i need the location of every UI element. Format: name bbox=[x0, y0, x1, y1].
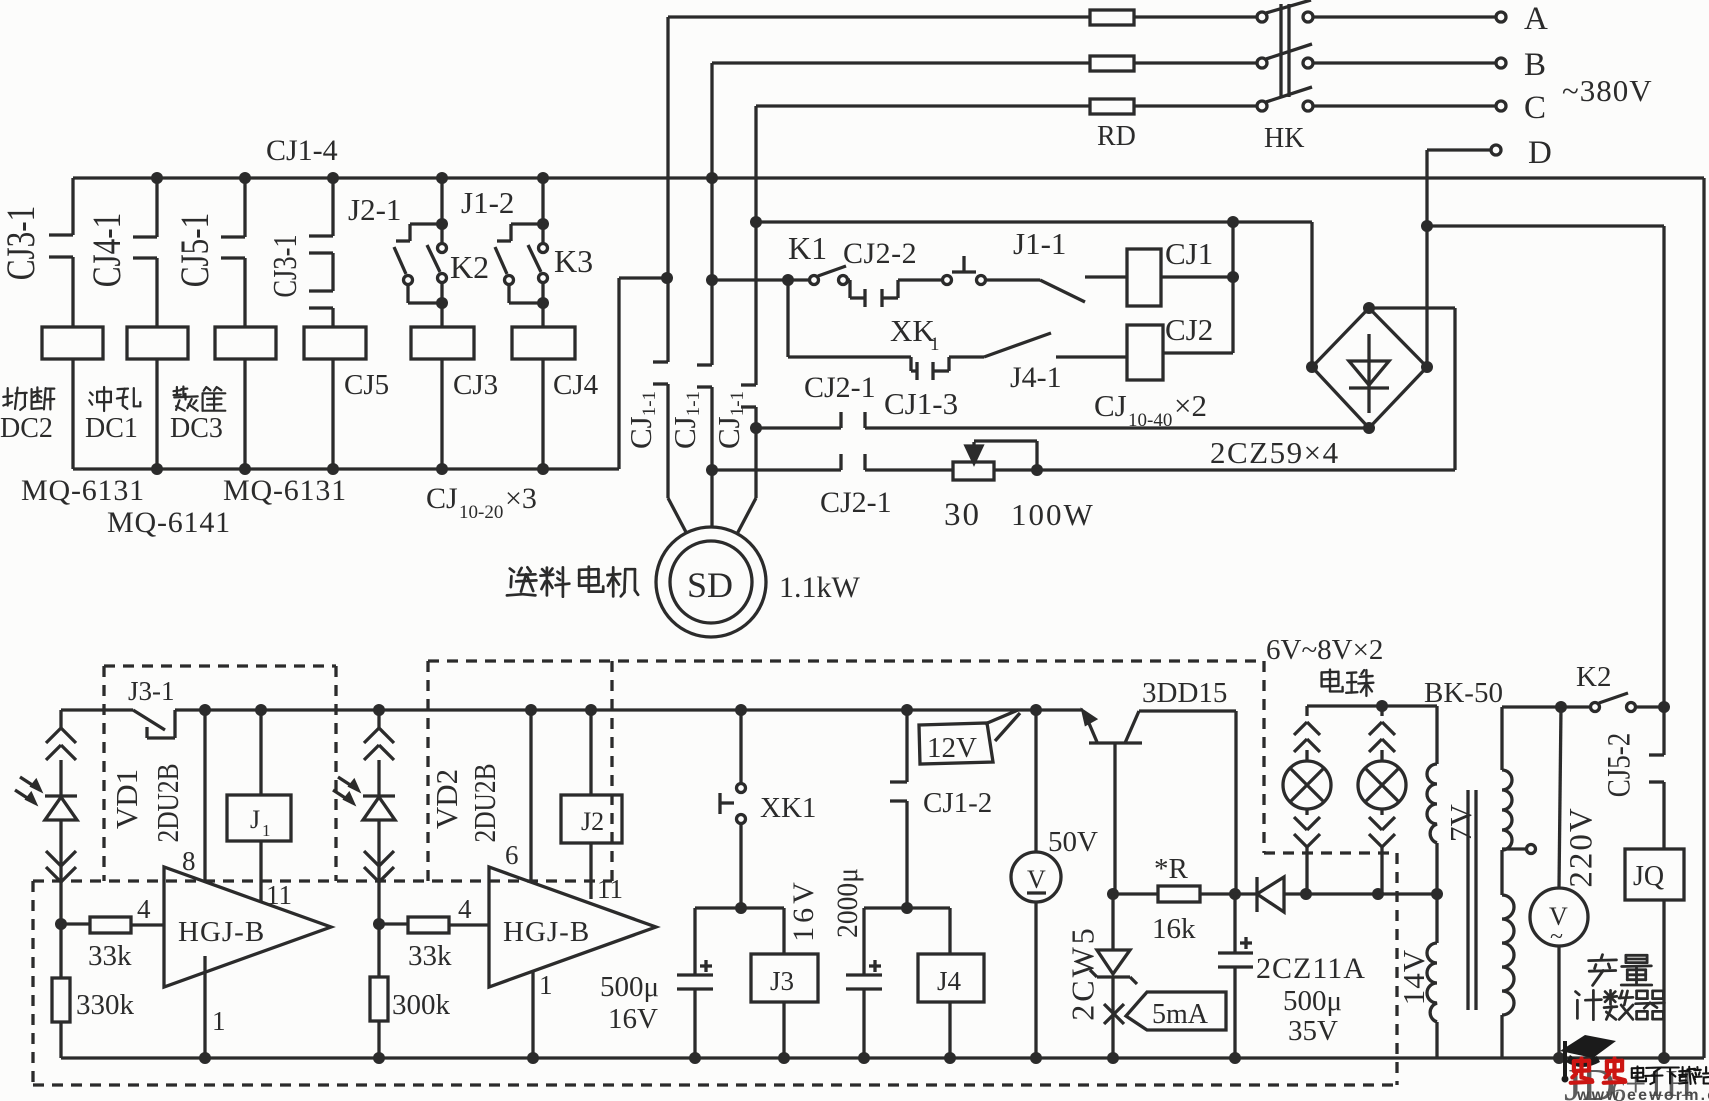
svg-text:1: 1 bbox=[930, 334, 940, 355]
photodiode VD1 bbox=[59, 710, 62, 728]
supply rail wire bbox=[61, 708, 133, 711]
node col6 split bbox=[537, 218, 549, 230]
node bridge left bbox=[1306, 361, 1318, 373]
wire coil CJ4 down bbox=[541, 359, 544, 469]
wire CJ2-1a to bridge bbox=[865, 426, 1369, 429]
dashed line lower bbox=[33, 879, 612, 882]
wire pin6 bbox=[529, 710, 532, 881]
wire col6 to coil bbox=[541, 303, 544, 327]
node CJ1 right bbox=[1227, 271, 1239, 283]
wire K3 left bottom bbox=[507, 285, 510, 303]
node lamp1 bottom bbox=[1300, 888, 1312, 900]
node rail J1 bbox=[255, 704, 267, 716]
node 220V branch bbox=[1555, 701, 1567, 713]
wire XK1 row bbox=[788, 355, 911, 358]
node bridge right bbox=[1421, 361, 1433, 373]
svg-text:CJ3: CJ3 bbox=[453, 369, 498, 401]
svg-text:6: 6 bbox=[505, 840, 519, 870]
node col5 split bbox=[436, 218, 448, 230]
capacitor 500u bbox=[677, 973, 713, 976]
light arrows VD2 bbox=[338, 777, 358, 790]
svg-text:300k: 300k bbox=[392, 989, 451, 1021]
wire coil CJ3 down bbox=[440, 359, 443, 469]
node base junction bbox=[1107, 888, 1119, 900]
ladder bottom bus wire bbox=[73, 467, 619, 470]
wire K1 row bbox=[712, 278, 788, 281]
node bridge bottom bbox=[1363, 422, 1375, 434]
node CJ1-CJ2 right bus bbox=[1227, 216, 1239, 228]
capacitor 2CZ11A 500u 35V bbox=[1218, 951, 1253, 954]
voltmeter 50V bbox=[1034, 710, 1037, 852]
flag 12V bbox=[919, 723, 993, 764]
svg-text:CJ5-2: CJ5-2 bbox=[1600, 733, 1637, 798]
node bottom col6 bbox=[537, 463, 549, 475]
relay coil CJ4 bbox=[512, 327, 575, 359]
wire primary top bbox=[1502, 705, 1561, 708]
transformer T1 primary bbox=[1500, 707, 1503, 770]
svg-text:11: 11 bbox=[597, 874, 623, 904]
relay coil J4 bbox=[948, 908, 951, 954]
svg-text:XK: XK bbox=[890, 313, 935, 348]
svg-text:16V: 16V bbox=[787, 878, 820, 942]
label DC2 switch-off bbox=[3, 388, 26, 410]
wire lamp bottom link bbox=[1306, 892, 1437, 895]
fuse RD-B bbox=[1090, 56, 1134, 71]
switch HK pole C bbox=[1257, 101, 1267, 111]
svg-text:50V: 50V bbox=[1048, 826, 1098, 858]
relay coil DC3 bbox=[215, 327, 276, 359]
relay coil DC2 bbox=[42, 327, 103, 359]
svg-text:10-20: 10-20 bbox=[459, 502, 503, 523]
svg-text:C: C bbox=[1524, 90, 1546, 126]
svg-text:RD: RD bbox=[1097, 121, 1136, 152]
wire coil DC3 down bbox=[243, 359, 246, 469]
wire rheostat row bbox=[712, 468, 841, 471]
voltmeter 220V bbox=[1559, 707, 1561, 888]
zener 2CW5 bbox=[1111, 894, 1114, 950]
contact CJ2-1 lower bbox=[839, 454, 842, 470]
svg-text:2DU2B: 2DU2B bbox=[469, 763, 503, 842]
svg-text:1.1kW: 1.1kW bbox=[779, 571, 861, 604]
svg-text:CJ: CJ bbox=[1094, 388, 1127, 423]
op-amp U2 HGJ-B bbox=[489, 867, 656, 987]
svg-text:V: V bbox=[1027, 865, 1046, 894]
wire col6 top bbox=[541, 178, 544, 224]
svg-text:2DU2B: 2DU2B bbox=[152, 763, 186, 842]
svg-text:8: 8 bbox=[182, 846, 196, 876]
node lamp2 top bbox=[1376, 700, 1388, 712]
wire button to blade bbox=[986, 278, 1040, 281]
wire XK1 row drop bbox=[786, 280, 789, 357]
contact CJ3-1 lower bbox=[331, 253, 334, 291]
svg-text:16k: 16k bbox=[1152, 913, 1196, 945]
svg-text:D: D bbox=[1528, 135, 1552, 171]
node rail1 J3 bbox=[778, 1052, 790, 1064]
svg-text:VD2: VD2 bbox=[429, 769, 464, 829]
contact CJ1-2 bbox=[905, 710, 908, 782]
watermark site name bbox=[1632, 1066, 1646, 1081]
dashed big box left bbox=[31, 881, 34, 1085]
node rail XK1 bbox=[735, 704, 747, 716]
svg-text:DC2: DC2 bbox=[0, 413, 53, 444]
label DC1 punching bbox=[89, 387, 111, 411]
node rheostat out bbox=[1031, 464, 1043, 476]
node rail1 50V bbox=[1030, 1052, 1042, 1064]
photodiode VD2 bbox=[377, 710, 380, 728]
rheostat wiper arrow bbox=[972, 442, 975, 448]
wire blade to CJ1 bbox=[1085, 275, 1127, 278]
node bus col3 bbox=[239, 172, 251, 184]
dashed box VD1 bbox=[104, 664, 336, 667]
contact col4 upper bbox=[331, 178, 334, 236]
svg-text:HGJ-B: HGJ-B bbox=[178, 916, 265, 948]
svg-text:VD1: VD1 bbox=[109, 769, 144, 829]
node rail 50V bbox=[1030, 704, 1042, 716]
svg-text:CJ2-1: CJ2-1 bbox=[804, 371, 876, 404]
node rail CJ1-2 bbox=[901, 704, 913, 716]
node bus motor mid bbox=[706, 172, 718, 184]
svg-text:30: 30 bbox=[944, 497, 981, 533]
svg-text:MQ-6131: MQ-6131 bbox=[223, 474, 347, 507]
contact CJ4-1 bbox=[155, 178, 158, 237]
label feed motor bbox=[507, 567, 537, 595]
primary tap terminal bbox=[1502, 847, 1526, 850]
wire CJ2 right bbox=[1163, 351, 1233, 354]
wire coil CJ5 down bbox=[331, 359, 334, 469]
rheostat wiper link bbox=[974, 439, 1037, 442]
switch K3 left blade bbox=[495, 247, 507, 274]
control bus D wire bbox=[1427, 224, 1664, 227]
node rail J2 bbox=[585, 704, 597, 716]
node bus col2 bbox=[151, 172, 163, 184]
contact CJ5-2 bbox=[1662, 707, 1665, 755]
transistor Q1 3DD15 bbox=[1089, 741, 1142, 744]
svg-text:K3: K3 bbox=[554, 243, 593, 279]
svg-text:K1: K1 bbox=[788, 230, 827, 266]
wire motor phase A bbox=[666, 17, 669, 362]
terminal D bbox=[1491, 145, 1501, 155]
node XK1 branch bbox=[782, 274, 794, 286]
wire K2 left bottom bbox=[406, 285, 409, 303]
svg-text:4: 4 bbox=[137, 894, 151, 924]
svg-text:16V: 16V bbox=[608, 1003, 658, 1035]
node D-bus junction bbox=[1421, 220, 1433, 232]
node rail pin6 bbox=[525, 704, 537, 716]
node rail1 zener bbox=[1107, 1052, 1119, 1064]
switch HK pole A bbox=[1257, 12, 1267, 22]
wire rheostat row to bridge bbox=[994, 468, 1455, 471]
svg-text:CJ1-2: CJ1-2 bbox=[923, 787, 992, 819]
transformer T1 secondary bbox=[1435, 706, 1438, 764]
svg-text:J: J bbox=[250, 805, 260, 834]
transformer core bbox=[1466, 790, 1469, 1010]
terminal B bbox=[1496, 58, 1506, 68]
dashed top edge bbox=[428, 659, 1264, 662]
relay JQ bbox=[1625, 849, 1684, 900]
svg-text:CJ4: CJ4 bbox=[553, 369, 599, 401]
svg-text:2CZ11A: 2CZ11A bbox=[1256, 952, 1366, 985]
svg-text:33k: 33k bbox=[88, 940, 132, 972]
wire pin1 b bbox=[531, 971, 534, 1058]
wire contact to rheostat bbox=[865, 468, 953, 471]
svg-text:35V: 35V bbox=[1288, 1015, 1338, 1047]
svg-text:12V: 12V bbox=[927, 732, 977, 764]
cross 5mA point bbox=[1104, 1004, 1124, 1024]
bottom rail wire bbox=[61, 1056, 1704, 1059]
lamp HL2 bbox=[1380, 706, 1383, 716]
contact XK1 bbox=[909, 357, 912, 371]
relay coil J3 bbox=[782, 908, 785, 954]
contact CJ2-1 upper bbox=[839, 412, 842, 428]
svg-text:www.eeworm.com: www.eeworm.com bbox=[1576, 1087, 1709, 1101]
contact CJ5-1 bbox=[243, 178, 246, 237]
wire motor phase C bbox=[754, 106, 757, 385]
resistor 33k b bbox=[379, 922, 408, 925]
control bus wire bbox=[756, 220, 1312, 223]
svg-text:J2-1: J2-1 bbox=[348, 192, 401, 227]
terminal A bbox=[1496, 12, 1506, 22]
node collector junction bbox=[1229, 888, 1241, 900]
svg-text:A: A bbox=[1524, 1, 1548, 37]
svg-text:500μ: 500μ bbox=[600, 971, 659, 1003]
wire cap2 link bbox=[864, 906, 950, 909]
svg-text:5mA: 5mA bbox=[1152, 999, 1209, 1030]
switch J3-1 bbox=[133, 710, 165, 730]
relay coil CJ3 bbox=[411, 327, 474, 359]
flag 5mA bbox=[1126, 992, 1226, 1030]
relay coil CJ1 bbox=[1127, 249, 1161, 306]
lamp HL1 bbox=[1305, 706, 1308, 716]
switch K2 right pole bbox=[440, 224, 443, 243]
dashed right jog bbox=[1262, 661, 1265, 853]
wire motor phase B bbox=[710, 63, 713, 365]
main bus wire bbox=[73, 176, 1704, 179]
wire phase C bbox=[756, 104, 1090, 107]
node bus col6 bbox=[537, 172, 549, 184]
wire CJ2-1a row bbox=[756, 426, 841, 429]
wire pin1 a bbox=[203, 956, 206, 1058]
node K2 right bbox=[1658, 701, 1670, 713]
fuse RD-A bbox=[1090, 10, 1134, 25]
svg-text:DC3: DC3 bbox=[170, 413, 223, 444]
wire bottom bus to phase-A tap bbox=[617, 278, 620, 469]
svg-text:3DD15: 3DD15 bbox=[1142, 677, 1227, 709]
svg-text:1: 1 bbox=[262, 821, 271, 840]
node rail1 JQ bbox=[1658, 1052, 1670, 1064]
switch K2 left blade bbox=[394, 247, 406, 274]
contact J2-1 bbox=[410, 222, 442, 225]
svg-text:MQ-6131: MQ-6131 bbox=[21, 474, 145, 507]
watermark bug chars bbox=[1571, 1059, 1593, 1083]
svg-text:11: 11 bbox=[266, 880, 292, 910]
svg-text:100W: 100W bbox=[1011, 497, 1095, 532]
capacitor 2000u bbox=[846, 973, 882, 976]
node rail1 cap2 bbox=[858, 1052, 870, 1064]
svg-text:CJ1-4: CJ1-4 bbox=[266, 134, 338, 167]
svg-text:J3-1: J3-1 bbox=[128, 676, 175, 706]
svg-text:BK-50: BK-50 bbox=[1424, 677, 1503, 709]
svg-text:×3: ×3 bbox=[505, 482, 537, 515]
switch K1 bbox=[788, 278, 809, 281]
label lamp beads bbox=[1322, 670, 1343, 692]
contact CJ2-2 bbox=[848, 280, 851, 298]
svg-text:220V: 220V bbox=[1564, 806, 1600, 887]
switch K2 counter bbox=[1561, 705, 1590, 708]
switch HK link bar bbox=[1279, 4, 1282, 97]
node col5 merge bbox=[436, 297, 448, 309]
wire right drop to K2 bbox=[1662, 226, 1665, 706]
rheostat 30ohm bbox=[953, 462, 994, 480]
motor SD bbox=[656, 527, 766, 637]
wire CJ right bus bbox=[1231, 222, 1234, 353]
supply rail wire 2 bbox=[175, 708, 1083, 711]
svg-text:1: 1 bbox=[539, 970, 553, 1000]
svg-text:B: B bbox=[1524, 47, 1546, 83]
node motor-C tap bbox=[750, 216, 762, 228]
right edge bus wire down bbox=[1702, 178, 1705, 1058]
svg-text:~380V: ~380V bbox=[1562, 73, 1653, 108]
node bottom col3 bbox=[239, 463, 251, 475]
svg-text:14V: 14V bbox=[1396, 949, 1431, 1005]
node bus col4 bbox=[327, 172, 339, 184]
node phase-A tap bbox=[661, 272, 673, 284]
svg-text:JQ: JQ bbox=[1633, 861, 1664, 892]
svg-text:CJ3-1: CJ3-1 bbox=[0, 206, 43, 281]
wire coil DC2 down bbox=[71, 359, 74, 469]
contact J1-2 bbox=[511, 222, 543, 225]
svg-text:HK: HK bbox=[1264, 123, 1304, 154]
wire base row bbox=[1113, 892, 1158, 895]
svg-text:CJ5: CJ5 bbox=[344, 369, 389, 401]
light arrows VD1 bbox=[20, 777, 40, 790]
svg-text:CJ2: CJ2 bbox=[1165, 312, 1213, 347]
node transformer tap 7V-14V bbox=[1431, 888, 1443, 900]
wire pin8 bbox=[203, 710, 206, 882]
relay coil CJ2 bbox=[1127, 325, 1163, 380]
dashed box VD2 bbox=[426, 661, 429, 881]
svg-text:CJ1: CJ1 bbox=[1165, 236, 1213, 271]
node rail pin8 bbox=[199, 704, 211, 716]
svg-text:XK1: XK1 bbox=[760, 792, 816, 824]
wire D to bridge bbox=[1427, 148, 1491, 151]
wire CJ1 right bbox=[1161, 275, 1233, 278]
svg-text:DC1: DC1 bbox=[85, 413, 138, 444]
svg-text:CJ: CJ bbox=[426, 482, 458, 515]
svg-text:CJ2-1: CJ2-1 bbox=[820, 486, 892, 519]
svg-text:×2: ×2 bbox=[1174, 388, 1207, 423]
node lamp2 bottom bbox=[1372, 888, 1384, 900]
svg-text:J4: J4 bbox=[937, 966, 962, 996]
wire pin11 b bbox=[589, 843, 592, 899]
diode lamp feed bbox=[1235, 892, 1257, 895]
svg-text:J1-1: J1-1 bbox=[1013, 226, 1066, 261]
svg-text:HGJ-B: HGJ-B bbox=[503, 916, 590, 948]
resistor 33k a bbox=[61, 922, 90, 925]
wire bridge top arm bbox=[1369, 306, 1455, 309]
svg-text:7V: 7V bbox=[1443, 803, 1478, 842]
svg-text:2000μ: 2000μ bbox=[831, 868, 864, 938]
svg-text:MQ-6141: MQ-6141 bbox=[107, 506, 231, 539]
node bus col5 bbox=[436, 172, 448, 184]
dashed big box bottom bbox=[33, 1083, 1397, 1086]
node VD2 junction bbox=[373, 918, 385, 930]
svg-text:2CW5: 2CW5 bbox=[1064, 925, 1100, 1021]
bridge diode symbol bbox=[1367, 334, 1370, 413]
svg-text:2CZ59×4: 2CZ59×4 bbox=[1210, 435, 1340, 470]
op-amp U1 HGJ-B bbox=[164, 867, 331, 987]
label production counter bbox=[1589, 955, 1617, 986]
contact CJ3-1 bbox=[71, 178, 74, 235]
wire XK1 to J4-1 bbox=[949, 355, 984, 358]
relay coil DC1 bbox=[127, 327, 188, 359]
node rail1 pin1b bbox=[527, 1052, 539, 1064]
svg-text:CJ5-1: CJ5-1 bbox=[172, 213, 217, 288]
relay coil CJ5 bbox=[304, 327, 366, 359]
node rail1 220V bbox=[1553, 1052, 1565, 1064]
node CJ1-2 cap junction bbox=[901, 902, 913, 914]
switch J1-1 blade bbox=[1040, 280, 1085, 302]
relay coil J2 bbox=[589, 710, 592, 795]
bridge rectifier 2CZ59 bbox=[1369, 308, 1427, 367]
resistor 300k bbox=[377, 924, 380, 977]
switch HK pole B bbox=[1257, 58, 1267, 68]
node bottom col2 bbox=[151, 463, 163, 475]
switch J4-1 blade bbox=[984, 333, 1051, 357]
node K1 row tap bbox=[706, 274, 718, 286]
node bottom col4 bbox=[327, 463, 339, 475]
watermark cap logo bbox=[1560, 1035, 1616, 1058]
svg-text:4: 4 bbox=[458, 894, 472, 924]
wire phase A bbox=[668, 15, 1090, 18]
node rail1 vd2 bbox=[373, 1052, 385, 1064]
node rail1 cap1 bbox=[689, 1052, 701, 1064]
node col6 merge bbox=[537, 297, 549, 309]
svg-text:SD: SD bbox=[687, 565, 733, 605]
svg-text:1: 1 bbox=[212, 1006, 226, 1036]
terminal C bbox=[1496, 101, 1506, 111]
svg-text:CJ1-3: CJ1-3 bbox=[884, 386, 958, 421]
svg-text:CJ3-1: CJ3-1 bbox=[266, 234, 304, 297]
wire cap1 link bbox=[695, 906, 784, 909]
svg-text:K2: K2 bbox=[1576, 661, 1611, 693]
svg-text:500μ: 500μ bbox=[1283, 985, 1342, 1017]
fuse RD-C bbox=[1090, 99, 1134, 114]
node rheostat row tap bbox=[706, 464, 718, 476]
resistor 330k bbox=[59, 924, 62, 978]
pushbutton J1-1 bbox=[943, 276, 952, 285]
resistor *R 16k bbox=[1158, 886, 1200, 902]
svg-text:J3: J3 bbox=[770, 966, 794, 996]
svg-text:6V~8V×2: 6V~8V×2 bbox=[1266, 634, 1383, 666]
node VD1 junction bbox=[55, 918, 67, 930]
pushbutton XK1 bottom bbox=[739, 710, 742, 783]
svg-text:*R: *R bbox=[1154, 853, 1189, 885]
svg-text:CJ4-1: CJ4-1 bbox=[84, 213, 129, 288]
wire coil DC1 down bbox=[155, 359, 158, 469]
wire pin11 a bbox=[259, 841, 262, 902]
wire phase B bbox=[712, 61, 1090, 64]
svg-text:~: ~ bbox=[1550, 924, 1563, 950]
label DC3 basket bbox=[174, 387, 198, 411]
node rail1 cap3 bbox=[1229, 1052, 1241, 1064]
wire col5 to coil bbox=[440, 303, 443, 327]
svg-text:J2: J2 bbox=[581, 807, 604, 836]
node CJ2-1a tap bbox=[750, 422, 762, 434]
svg-text:CJ2-2: CJ2-2 bbox=[843, 237, 917, 270]
node XK1 cap junction bbox=[735, 902, 747, 914]
svg-text:33k: 33k bbox=[408, 940, 452, 972]
node bridge top bbox=[1363, 302, 1375, 314]
